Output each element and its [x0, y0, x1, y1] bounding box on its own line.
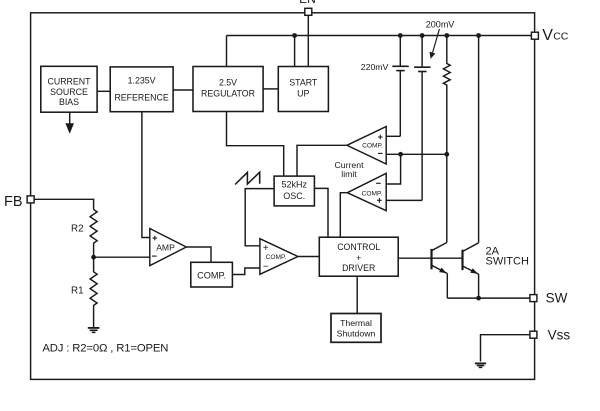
node sense line left — [398, 152, 403, 157]
svg-text:COMP.: COMP. — [197, 270, 226, 280]
pin Vcc square — [531, 32, 538, 39]
wire bias box to reference box — [97, 90, 110, 92]
svg-text:R1: R1 — [71, 286, 84, 297]
svg-text:COMP.: COMP. — [266, 254, 287, 261]
box 2.5V REGULATOR — [193, 67, 263, 112]
box 52kHz OSC. — [274, 176, 314, 206]
wire Q2 collector up to Vcc rail — [478, 36, 480, 243]
svg-text:UP: UP — [297, 89, 309, 99]
arrow below CURRENT SOURCE BIAS — [65, 112, 74, 134]
svg-text:ADJ : R2=0Ω , R1=OPEN: ADJ : R2=0Ω , R1=OPEN — [42, 343, 168, 355]
ground below R1 — [88, 328, 100, 333]
wire rail junction to START UP top — [294, 36, 296, 67]
box CURRENT SOURCE BIAS — [41, 66, 97, 112]
svg-text:−: − — [263, 261, 269, 272]
svg-text:Thermal: Thermal — [340, 318, 372, 328]
wire EN pin to START UP top — [307, 15, 309, 66]
op-amp PWM comparator (points right) — [260, 239, 298, 275]
wire divider junction to AMP - input — [94, 256, 150, 258]
svg-text:+: + — [263, 243, 269, 254]
box CONTROL + DRIVER — [319, 237, 398, 276]
svg-text:EN: EN — [299, 0, 316, 6]
pin FB square — [27, 196, 34, 203]
box Thermal Shutdown — [331, 314, 381, 343]
arrow Q1 emitter — [439, 268, 446, 274]
op-amp current limit comparator 1 (points left) — [347, 127, 386, 165]
svg-text:V: V — [542, 27, 553, 44]
wire oscillator right to control driver top — [314, 188, 328, 237]
svg-text:R2: R2 — [71, 223, 84, 234]
svg-text:BIAS: BIAS — [59, 97, 79, 107]
svg-text:SOURCE: SOURCE — [50, 87, 88, 97]
svg-text:52kHz: 52kHz — [281, 180, 307, 190]
transistor Q2 — [463, 243, 479, 274]
box START UP — [278, 67, 328, 112]
wire comp1 output to oscillator — [297, 145, 347, 176]
svg-text:Shutdown: Shutdown — [337, 329, 376, 339]
wire regulator to start up — [263, 88, 278, 90]
node divider junction — [91, 255, 96, 260]
svg-text:START: START — [289, 78, 318, 88]
wire FB to divider — [34, 199, 94, 209]
wire reference bottom to AMP + input — [142, 112, 150, 238]
pin Vss square — [530, 331, 537, 338]
wire Q2 emitter down to SW line — [478, 274, 480, 298]
wire COMP box output to PWM comp - input — [232, 268, 260, 275]
wire control driver output to switch bases — [398, 257, 462, 259]
resistor current sense (vertical zigzag) — [443, 36, 450, 155]
pin SW square — [530, 295, 537, 302]
wire top Vcc rail — [227, 35, 532, 37]
node Q2 collector on rail — [476, 33, 481, 38]
svg-text:limit: limit — [341, 169, 357, 179]
svg-text:OSC.: OSC. — [283, 191, 305, 201]
node rail-startup junction — [292, 33, 297, 38]
wire comp2 + input to cap2 — [386, 199, 422, 201]
wire oscillator left to PWM comp + input — [245, 189, 274, 246]
svg-text:COMP.: COMP. — [362, 143, 383, 150]
node SW emitters junction — [476, 296, 481, 301]
node sense line right — [444, 152, 449, 157]
node resistor on rail — [444, 33, 449, 38]
outer IC boundary box — [31, 13, 535, 380]
svg-text:SWITCH: SWITCH — [486, 255, 529, 267]
arrow Q2 emitter — [470, 268, 478, 273]
transistor Q1 — [432, 243, 448, 274]
svg-text:200mV: 200mV — [426, 19, 455, 29]
node cap1 on rail — [398, 33, 403, 38]
wire control driver to thermal shutdown — [356, 276, 358, 313]
capacitor/battery 200mV source — [414, 36, 430, 201]
arrow from 200mV to capacitor C2 — [433, 29, 440, 53]
svg-text:DRIVER: DRIVER — [342, 263, 375, 273]
resistor R2 (vertical zigzag) — [90, 210, 97, 258]
box 1.235V REFERENCE — [110, 67, 173, 112]
wire Vss to ground — [481, 335, 530, 362]
wire PWM comp output to control driver — [298, 256, 319, 258]
wire comp2 output to control driver — [340, 193, 347, 238]
ground below Vss wire — [475, 363, 486, 367]
svg-text:+: + — [356, 253, 361, 263]
svg-text:2.5V: 2.5V — [219, 78, 237, 88]
resistor R1 (vertical zigzag) — [90, 257, 97, 327]
svg-text:220mV: 220mV — [361, 62, 389, 72]
svg-text:CONTROL: CONTROL — [337, 242, 380, 252]
node cap2 on rail — [420, 33, 425, 38]
op-amp current limit comparator 2 (points left) — [347, 173, 386, 210]
wire comp1 + input to cap1 — [386, 135, 400, 137]
svg-text:FB: FB — [4, 194, 23, 210]
pin EN square — [305, 8, 312, 15]
wire SW line — [447, 297, 530, 299]
wire reference to regulator — [173, 89, 193, 91]
wire comp1 - input sense line — [386, 153, 447, 155]
wire Q1 emitter down to SW line — [446, 274, 448, 299]
svg-text:Vss: Vss — [548, 328, 571, 343]
capacitor/battery 220mV source — [392, 36, 408, 137]
op-amp AMP error amplifier (points right) — [150, 229, 187, 266]
wire AMP output to COMP box — [186, 247, 211, 262]
wire regulator bottom to oscillator top — [227, 112, 284, 177]
svg-text:SW: SW — [546, 290, 568, 305]
svg-text:REFERENCE: REFERENCE — [114, 93, 168, 103]
wire Q1 collector up to sense resistor — [446, 154, 448, 242]
svg-text:AMP: AMP — [156, 243, 175, 253]
sawtooth waveform symbol — [235, 172, 260, 184]
svg-text:CURRENT: CURRENT — [47, 76, 91, 86]
svg-text:CC: CC — [553, 31, 569, 43]
wire comp2 - input to sense node — [386, 154, 400, 184]
svg-text:1.235V: 1.235V — [128, 76, 156, 86]
svg-text:COMP.: COMP. — [362, 190, 383, 197]
wire rail to regulator top — [226, 36, 228, 67]
svg-text:REGULATOR: REGULATOR — [201, 89, 255, 99]
box COMP. — [191, 262, 233, 287]
